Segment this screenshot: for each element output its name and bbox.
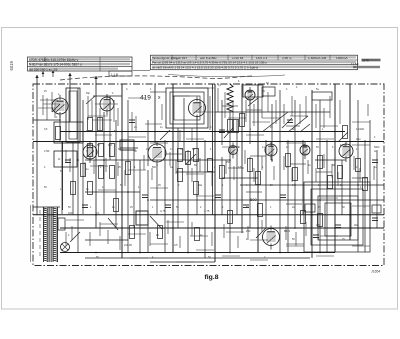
box mid left: [120, 140, 134, 150]
wire stub: [128, 136, 146, 138]
junction: [172, 214, 174, 216]
junction: [311, 141, 313, 143]
svg-text:1,75: 1,75: [204, 209, 210, 213]
wire stub: [261, 220, 263, 232]
tube V5: [148, 141, 166, 166]
wire stub: [286, 203, 302, 205]
junction: [95, 214, 97, 216]
resistor R33: [158, 226, 163, 239]
junction: [196, 159, 198, 161]
resistor R10: [126, 162, 131, 175]
wire stub: [329, 96, 331, 118]
capacitor C12: [129, 120, 135, 123]
wire stub: [66, 219, 84, 221]
junction: [95, 252, 97, 254]
wire v29: [221, 157, 223, 215]
resistor R1: [88, 118, 93, 131]
dashed link left: [30, 205, 32, 262]
note block top right: [351, 59, 381, 69]
junction: [257, 214, 259, 216]
wire stub: [222, 146, 240, 148]
wire v42: [311, 90, 313, 258]
wire stub: [119, 236, 121, 250]
resistor R11: [178, 149, 183, 162]
wire stub: [179, 130, 181, 142]
svg-text:1 1 B: 1 1 B: [111, 72, 118, 76]
junction: [257, 131, 259, 133]
wire v22: [177, 128, 179, 228]
svg-text:2x0,05: 2x0,05: [124, 243, 132, 247]
wire stub: [316, 255, 334, 257]
wire v31: [236, 120, 238, 215]
capacitor C5: [215, 195, 221, 198]
IF can mid 2: [170, 92, 204, 124]
dash link between tables: [133, 70, 150, 72]
wire v37: [271, 104, 273, 162]
wire h9: [176, 171, 215, 173]
switch arm: [262, 112, 288, 132]
wire h2: [215, 111, 330, 113]
wire stub: [246, 191, 262, 193]
resistor R4: [88, 144, 93, 157]
resistor R9: [88, 182, 93, 195]
wire stub: [352, 245, 370, 247]
input arrow 3: [94, 76, 97, 90]
wire v12: [121, 84, 123, 258]
wire stub: [320, 235, 338, 237]
leader curve under right table: [168, 75, 285, 77]
leader curve under tables: [60, 76, 252, 80]
wire stub: [150, 187, 168, 189]
wire h20: [150, 261, 215, 263]
svg-text:220: 220: [68, 211, 73, 215]
wire h8: [315, 159, 346, 161]
junction: [59, 119, 61, 121]
svg-text:E446: E446: [340, 143, 347, 147]
wire h7: [85, 159, 230, 161]
svg-text:fig.8: fig.8: [205, 274, 219, 281]
tube V3: [189, 97, 206, 121]
wire stub: [262, 117, 280, 119]
capacitor C4: [165, 205, 171, 208]
wire v28: [221, 100, 223, 145]
wire stub: [233, 166, 235, 180]
resistor R18: [248, 159, 253, 172]
IF can mid outer: [166, 88, 208, 128]
svg-text:13,5 u 4: 13,5 u 4: [256, 56, 267, 60]
wire stub: [191, 168, 193, 182]
resistor R27: [228, 120, 233, 133]
junction: [229, 252, 231, 254]
wire stub: [286, 125, 300, 127]
switch arm: [70, 232, 80, 242]
wire stub: [54, 100, 56, 118]
wire stub: [320, 125, 338, 127]
svg-text:1799: 1799: [44, 150, 50, 153]
switch arm: [86, 96, 95, 104]
svg-text:500: 500: [250, 197, 257, 202]
wire v48: [357, 100, 359, 252]
svg-text:12.5 b: 12.5 b: [351, 62, 359, 66]
wire stub: [145, 123, 162, 125]
wire stub: [150, 91, 166, 93]
capacitor C7: [280, 195, 286, 198]
junction: [349, 214, 351, 216]
wire stub: [250, 259, 268, 261]
wire stub: [246, 109, 262, 111]
junction: [121, 131, 123, 133]
wire stub: [150, 243, 168, 245]
resistor R17: [220, 166, 225, 179]
junction: [214, 227, 216, 229]
switch arm: [288, 116, 308, 132]
svg-text:1M: 1M: [108, 143, 112, 147]
wire stub: [87, 96, 89, 120]
wire stub: [315, 104, 317, 128]
capacitor C1: [65, 160, 71, 163]
wire stub: [199, 158, 201, 172]
wire stub: [226, 231, 244, 233]
wire stub: [84, 162, 86, 176]
junction: [127, 191, 129, 193]
wire stub: [359, 168, 361, 182]
wire v30: [229, 110, 231, 252]
resistor R24: [356, 159, 361, 172]
junction: [172, 227, 174, 229]
wire stub: [307, 160, 309, 174]
junction: [77, 159, 79, 161]
wire v5: [72, 142, 74, 215]
wire h5: [33, 141, 384, 143]
wire stub: [305, 96, 307, 118]
wire stub: [120, 149, 136, 151]
capacitor C11: [372, 218, 378, 221]
coil L1 (zigzag): [227, 84, 233, 112]
wire stub: [98, 189, 116, 191]
wire v27: [214, 84, 216, 262]
tube V2: [100, 94, 114, 115]
wire stub: [99, 222, 101, 236]
svg-text:qld 1B0-560-1 av, 3/5: qld 1B0-560-1 av, 3/5: [29, 67, 58, 71]
wire stub: [40, 99, 58, 101]
tube V8: [300, 142, 310, 159]
tube V10 output: [263, 226, 280, 250]
switch arm: [108, 218, 118, 230]
wire stub: [247, 226, 249, 240]
wire stub: [261, 96, 263, 118]
wire v44: [326, 140, 328, 252]
junction: [121, 141, 123, 143]
wire stub: [320, 197, 338, 199]
table pointer arrows: [42, 70, 55, 77]
wire stub: [250, 239, 268, 241]
wire v13: [127, 100, 129, 252]
wire stub: [211, 172, 213, 186]
wire v47: [349, 84, 351, 240]
wire stub: [286, 245, 304, 247]
resistor R12: [186, 152, 191, 165]
wire stub: [167, 220, 169, 234]
junction: [154, 131, 156, 133]
wire stub: [128, 169, 146, 171]
wire stub: [51, 92, 53, 112]
capacitor C3: [142, 195, 148, 198]
wire v24: [187, 150, 189, 252]
tube V4: [245, 87, 255, 104]
svg-text:4,5: 4,5: [316, 223, 320, 227]
junction: [294, 184, 296, 186]
wire v33: [249, 100, 251, 144]
wire stub: [245, 100, 247, 122]
wire v40: [294, 100, 296, 228]
junction: [103, 159, 105, 161]
wire stub: [290, 115, 308, 117]
junction: [121, 227, 123, 229]
svg-text:17D9. 475DKc 415-1075n 51kHz v: 17D9. 475DKc 415-1075n 51kHz v: [29, 58, 79, 62]
wire stub: [117, 108, 119, 126]
parts table (right): [151, 55, 358, 69]
pilot lamp: [61, 243, 70, 252]
junction: [294, 227, 296, 229]
switch arm: [338, 132, 348, 142]
wire v7: [82, 100, 84, 214]
resistor R22: [318, 156, 323, 169]
wire stub: [196, 111, 214, 113]
svg-text:B443: B443: [284, 229, 291, 233]
wire stub: [149, 232, 151, 246]
capacitor C9: [335, 225, 341, 228]
fuse box: [136, 211, 148, 225]
output loop 2: [311, 189, 363, 245]
wire stub: [352, 121, 370, 123]
wire h16: [60, 227, 384, 229]
resistor R19: [256, 172, 261, 185]
IF can left outer: [66, 88, 80, 142]
wire stub: [90, 165, 108, 167]
wire v14: [133, 150, 135, 228]
wire stub: [209, 96, 211, 130]
wire v19: [156, 164, 158, 215]
switch arm: [150, 216, 162, 229]
svg-text:0,5: 0,5: [174, 243, 178, 247]
resistor R14: [178, 169, 183, 182]
resistor R13: [194, 149, 199, 162]
dashed link left 2: [39, 210, 41, 258]
wire v41: [302, 140, 304, 215]
wire v51: [376, 150, 378, 228]
wire stub: [117, 162, 119, 176]
capacitor C6: [243, 205, 249, 208]
wire stub: [131, 112, 133, 131]
svg-text:Par ca 1203 54 a 1313 av 2/3 1: Par ca 1203 54 a 1313 av 2/3 1,4 5,5 3,7…: [152, 61, 267, 65]
wire stub: [88, 115, 108, 117]
svg-text:500: 500: [152, 166, 157, 169]
resistor R29: [318, 214, 323, 227]
svg-text:1 300mA 4u5: 1 300mA 4u5: [308, 56, 327, 60]
box ps: [58, 218, 65, 230]
output loop outer: [304, 182, 370, 252]
wire stub: [275, 100, 277, 124]
box 50: [262, 87, 275, 96]
junction: [357, 184, 359, 186]
wire stub: [323, 154, 325, 168]
wire stub: [65, 232, 67, 246]
wire v6: [77, 88, 79, 252]
svg-text:250: 250: [246, 229, 251, 233]
box out2: [372, 205, 381, 213]
wire v23: [183, 98, 185, 160]
resistor R25: [363, 178, 368, 191]
resistor R7: [99, 166, 104, 179]
junction: [257, 227, 259, 229]
wire v-pair2: [212, 84, 214, 215]
input arrow 1: [35, 75, 38, 89]
wire stub: [316, 171, 332, 173]
wire v16: [147, 120, 149, 166]
wire h10: [222, 177, 258, 179]
wire v38: [279, 90, 281, 252]
wire v20: [164, 140, 166, 252]
svg-text:0,1: 0,1: [86, 143, 90, 147]
wire stub: [175, 160, 177, 174]
wire v32: [241, 84, 243, 233]
wire stub: [339, 100, 341, 124]
wire stub: [128, 97, 146, 99]
wire stub: [99, 108, 101, 130]
wire stub: [299, 104, 301, 124]
wire stub: [290, 163, 306, 165]
wire stub: [222, 105, 238, 107]
wire stub: [253, 168, 255, 182]
wire stub: [267, 92, 269, 112]
wire stub: [261, 156, 263, 170]
wire stub: [367, 104, 369, 116]
capacitor C10: [372, 160, 378, 163]
wire stub: [253, 104, 255, 126]
wire stub: [225, 160, 227, 174]
wire v39: [287, 140, 289, 252]
wire h11: [240, 184, 384, 186]
resistor R26: [240, 114, 245, 127]
wire v43: [319, 100, 321, 252]
wire h12: [85, 191, 140, 193]
wire stub: [93, 160, 95, 174]
wire stub: [166, 221, 184, 223]
junction: [214, 141, 216, 143]
wire stub: [273, 166, 275, 180]
switch arm: [248, 98, 258, 106]
wire stub: [95, 134, 112, 136]
junction: [147, 199, 149, 201]
wire stub: [223, 224, 225, 238]
resistor R30: [343, 126, 348, 139]
mains transformer T1: [44, 207, 58, 262]
tube V6: [229, 143, 238, 159]
wire stub: [71, 226, 73, 240]
parts table (left): [28, 57, 133, 76]
junction: [334, 227, 336, 229]
wire stub: [352, 144, 370, 146]
resistor R39: [81, 164, 86, 177]
capacitor C14: [287, 120, 293, 123]
wire stub: [91, 100, 93, 118]
wire v36: [265, 140, 267, 228]
wire stub: [191, 128, 193, 142]
wire v50: [369, 120, 371, 228]
wire stub: [150, 142, 168, 144]
wire stub: [211, 232, 213, 246]
wire h4: [60, 131, 345, 133]
tube V7: [265, 141, 277, 160]
resistor R15: [194, 182, 199, 195]
svg-text:6019: 6019: [9, 61, 14, 71]
box stage1: [54, 122, 83, 143]
wire stub: [217, 88, 219, 112]
svg-text:0,1u: 0,1u: [356, 138, 361, 141]
switch arm: [186, 154, 196, 164]
IF can mid 3: [174, 96, 200, 120]
wire stub: [124, 170, 126, 186]
junction: [319, 199, 321, 201]
wire h18: [60, 252, 335, 254]
svg-text:u 05 m: u 05 m: [282, 56, 292, 60]
wire stub: [250, 155, 266, 157]
IF can left inner: [69, 91, 77, 139]
wire v8: [95, 90, 97, 228]
wire stub: [337, 172, 339, 186]
svg-text:N 817=av 3817s 175 14-97dr, 58: N 817=av 3817s 175 14-97dr, 5817 u: [29, 63, 82, 67]
wire stub: [95, 103, 118, 105]
tube V9: [339, 141, 353, 162]
wire h13: [150, 199, 384, 201]
junction: [349, 141, 351, 143]
wire v18: [154, 84, 156, 143]
svg-text:IA: IA: [58, 158, 61, 161]
wire stub: [291, 168, 293, 182]
tube V1: [52, 95, 68, 118]
junction: [319, 252, 321, 254]
wire stub: [166, 153, 182, 155]
wire stub: [172, 95, 190, 97]
wire stub: [352, 177, 368, 179]
wire stub: [232, 100, 234, 120]
svg-text:geh 817: geh 817: [176, 56, 187, 60]
wire stub: [224, 92, 226, 118]
wire stub: [252, 121, 270, 123]
svg-text:C: C: [126, 88, 128, 91]
junction: [172, 141, 174, 143]
wire stub: [323, 108, 325, 128]
wire v17: [147, 170, 149, 252]
wire stub: [196, 195, 214, 197]
junction: [279, 141, 281, 143]
wire stub: [130, 257, 148, 259]
junction: [369, 227, 371, 229]
resistor R32: [130, 226, 135, 239]
wire v21: [172, 84, 174, 252]
wire stub: [107, 230, 109, 244]
wire v10: [109, 96, 111, 160]
wire stub: [43, 103, 60, 105]
resistor R6: [110, 144, 115, 157]
resistor R5: [99, 144, 104, 157]
capacitor C13: [219, 130, 225, 133]
svg-text:ach 8 av50c: ach 8 av50c: [200, 56, 217, 60]
wire stub: [186, 138, 204, 140]
junction: [229, 159, 231, 161]
wire h19: [85, 257, 310, 259]
wire stub: [305, 222, 307, 236]
